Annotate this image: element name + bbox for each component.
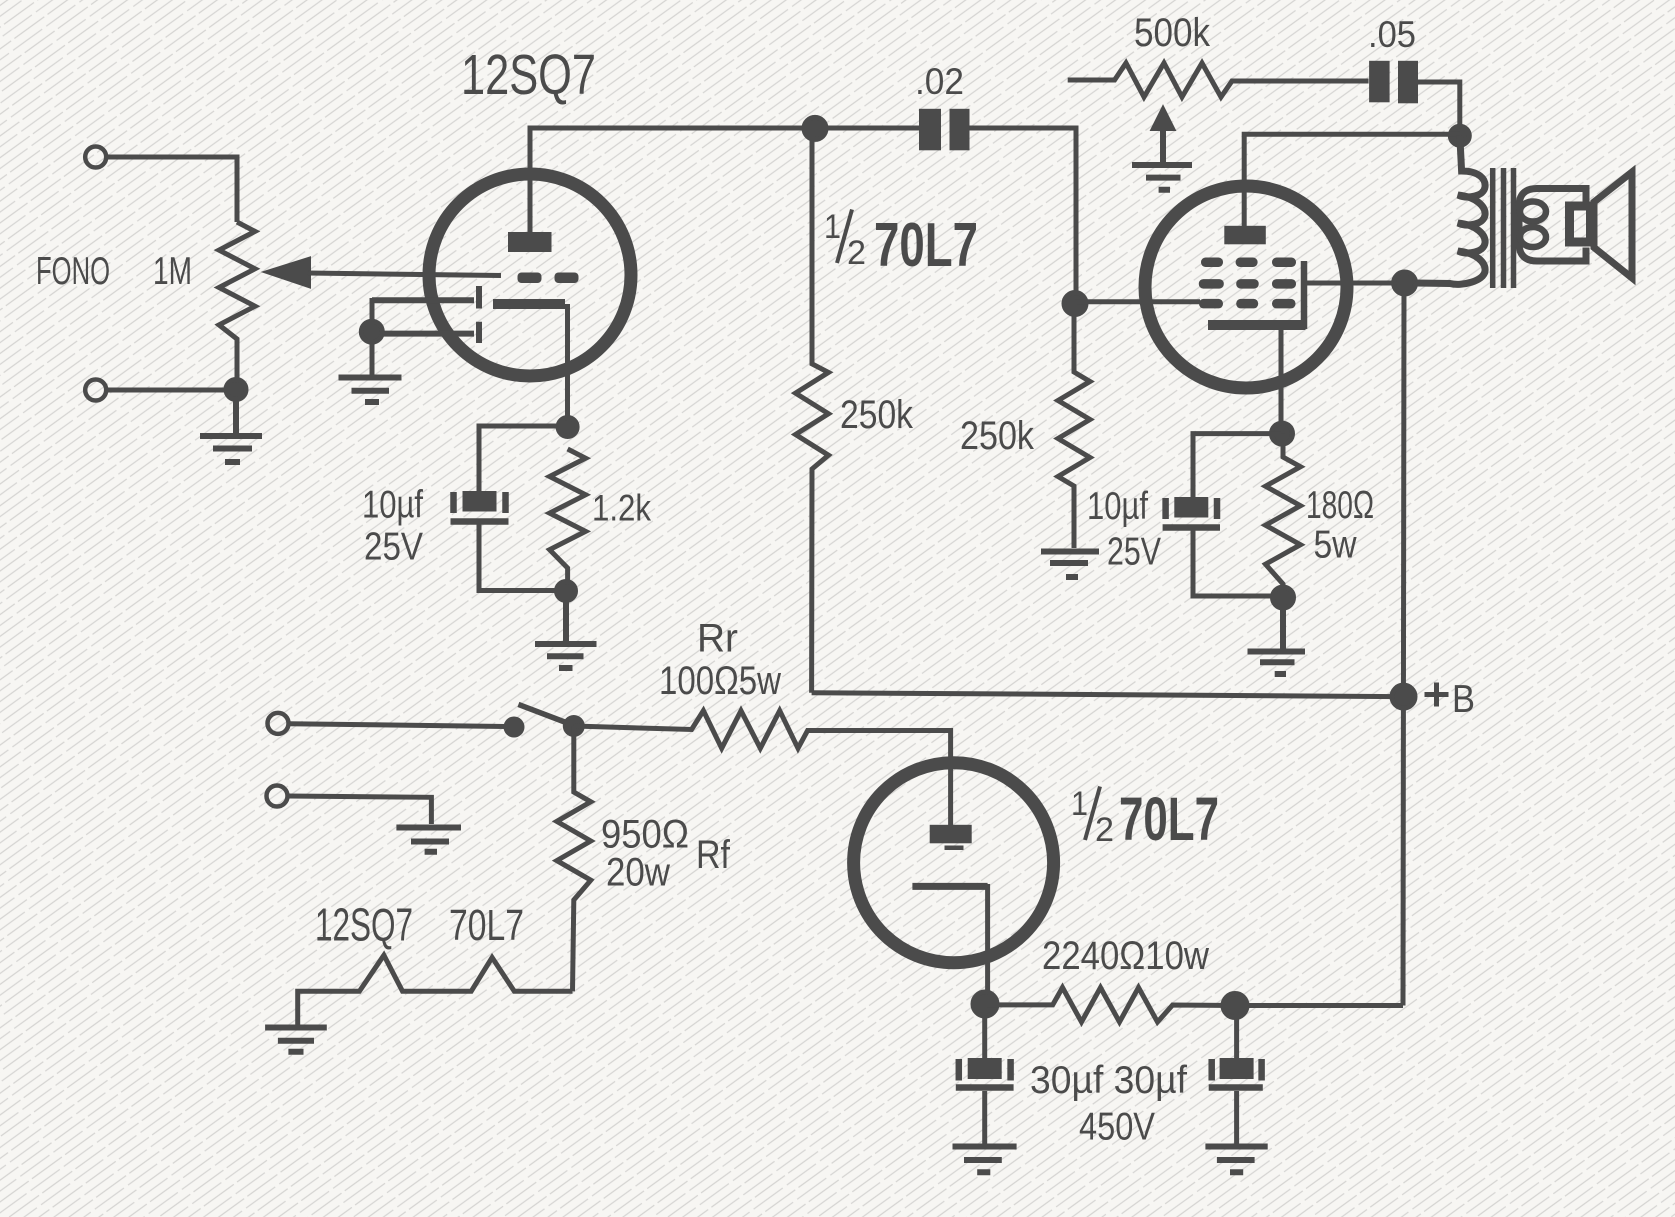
- wire wiper to grid: [308, 273, 501, 276]
- grid row3 dash1 V2: [1199, 299, 1223, 309]
- capacitor C6 30uf right: [1209, 1006, 1263, 1088]
- secondary curl 1: [1520, 202, 1546, 222]
- cathode bar V1: [493, 299, 565, 309]
- svg-text:B: B: [1452, 678, 1475, 721]
- wire cathode node to C4: [479, 426, 567, 491]
- tube V2 70L7 envelope: [1145, 186, 1347, 388]
- speaker LS horn: [1594, 172, 1632, 278]
- svg-text:500k: 500k: [1134, 11, 1210, 55]
- +B rail: [812, 693, 1404, 697]
- wire C4 to R2 bottom node: [479, 525, 563, 591]
- ground pot: [200, 399, 262, 462]
- grid row2 dash3 V2: [1272, 279, 1296, 289]
- svg-text:12SQ7: 12SQ7: [461, 43, 596, 107]
- node E screen/primary junction: [1394, 272, 1416, 294]
- node V1 cathode: [558, 418, 577, 437]
- node R2 bottom: [557, 582, 576, 601]
- ground R5: [1248, 598, 1306, 675]
- wiper ground arrow R3: [1132, 108, 1192, 190]
- terminal J3 AC line top: [268, 713, 289, 734]
- svg-text:30µf 30µf: 30µf 30µf: [1030, 1059, 1187, 1102]
- ground C5: [953, 1147, 1017, 1173]
- wire V2 screen to node E: [1304, 281, 1404, 286]
- resistor R9 2240 ohm: [985, 988, 1235, 1023]
- label 1/2 70L7 bottom: [1071, 785, 1219, 853]
- beam plate riser V2: [1301, 261, 1308, 329]
- svg-text:.02: .02: [915, 60, 964, 102]
- wire V3 cathode down: [985, 884, 990, 1004]
- plate lead V3: [948, 762, 953, 826]
- plate of V2: [1224, 226, 1266, 245]
- svg-text:1.2k: 1.2k: [592, 488, 651, 529]
- wire V1 plate to top rail: [530, 128, 815, 232]
- speaker LS driver: [1570, 206, 1591, 242]
- secondary curl 2: [1520, 227, 1546, 247]
- svg-text:250k: 250k: [840, 393, 913, 437]
- wire J4 to ground: [288, 796, 431, 824]
- svg-text:2: 2: [847, 234, 866, 272]
- wire node B to V2 grid: [1075, 299, 1200, 304]
- node H filter: [1223, 994, 1247, 1018]
- transformer T1 secondary: [1519, 189, 1586, 262]
- wire J1 to pot top: [107, 157, 238, 222]
- resistor R2 1.2k: [550, 449, 586, 591]
- node D cathode V2: [1272, 423, 1293, 444]
- grid row2 dash2 V2: [1236, 279, 1259, 289]
- label 1/2 70L7 mid: [824, 208, 978, 280]
- node pot bottom: [226, 380, 246, 400]
- svg-text:1: 1: [824, 208, 841, 246]
- ground R2: [535, 591, 597, 668]
- wire V2 cathode down: [1279, 330, 1284, 434]
- potentiometer R1 1M: [219, 222, 255, 388]
- svg-text:FONO: FONO: [36, 250, 110, 293]
- tube V1 12SQ7 envelope: [429, 174, 631, 376]
- switch S1: [504, 704, 585, 737]
- svg-text:2: 2: [1095, 811, 1114, 849]
- capacitor C4 10uf: [451, 491, 509, 522]
- svg-text:25V: 25V: [364, 526, 423, 569]
- wire node C to V2 plate: [1244, 134, 1460, 226]
- node C plate junction: [1450, 126, 1469, 145]
- ground diode plates: [339, 378, 402, 403]
- plate grid dash V3: [945, 846, 964, 851]
- svg-text:20w: 20w: [606, 851, 670, 895]
- svg-text:250k: 250k: [960, 414, 1034, 458]
- svg-text:1: 1: [1071, 785, 1088, 823]
- resistor R5 180 ohm: [1266, 434, 1301, 598]
- wire diode plates junction: [370, 298, 375, 376]
- cathode V3: [912, 883, 987, 890]
- wire C5 to ground: [982, 1091, 987, 1146]
- grid row3 dash2 V2: [1236, 299, 1258, 309]
- wire J3 to switch: [289, 724, 505, 727]
- cathode bar V2: [1208, 320, 1306, 330]
- capacitor C3 10uf: [1163, 497, 1220, 528]
- svg-text:70L7: 70L7: [449, 901, 524, 950]
- diode plate upper V1: [372, 286, 479, 309]
- wire C2 to node C: [1418, 82, 1460, 136]
- node I rectifier cathode: [973, 992, 997, 1016]
- plate of V1: [508, 232, 552, 252]
- wire node H to +B line: [1235, 1003, 1403, 1008]
- svg-text:10µf: 10µf: [1087, 485, 1148, 528]
- capacitor C1 .02: [815, 109, 970, 151]
- node F +B: [1392, 685, 1415, 708]
- svg-text:1M: 1M: [153, 250, 192, 293]
- svg-text:180Ω: 180Ω: [1306, 484, 1374, 527]
- transformer T1 core: [1493, 168, 1514, 288]
- grid row1 dash3 V2: [1272, 258, 1296, 268]
- ground R6: [1041, 552, 1099, 578]
- ground C6: [1205, 1147, 1267, 1173]
- wire C3 to node G: [1193, 531, 1279, 597]
- wire node D to C3: [1193, 434, 1281, 497]
- wiper arrow of R1 to V1 grid: [264, 258, 310, 288]
- tube V3 rectifier envelope: [854, 763, 1054, 963]
- wire V1 cathode down: [565, 304, 570, 427]
- svg-text:Rr: Rr: [697, 617, 738, 661]
- capacitor C2 .05: [1369, 61, 1418, 104]
- svg-text:10µf: 10µf: [362, 484, 423, 527]
- terminal J1 FONO top: [85, 147, 106, 168]
- grid row1 dash2 V2: [1236, 258, 1258, 268]
- plate of V3: [930, 825, 972, 844]
- svg-text:450V: 450V: [1079, 1106, 1155, 1149]
- terminal J2 FONO bottom: [85, 380, 106, 401]
- grid dash 1 V1: [518, 273, 542, 284]
- grid row3 dash3 V2: [1272, 299, 1296, 309]
- svg-text:70L7: 70L7: [874, 211, 978, 280]
- svg-text:70L7: 70L7: [1119, 785, 1219, 853]
- potentiometer R3 500k: [1068, 63, 1369, 97]
- node R5 bottom: [1273, 587, 1294, 608]
- node B V2 grid: [1064, 293, 1086, 315]
- wire C1 to V2 grid corner: [970, 128, 1077, 304]
- svg-text:25V: 25V: [1107, 531, 1161, 574]
- label +B: [1425, 683, 1449, 707]
- wire J2 to node: [107, 388, 237, 393]
- svg-text:.05: .05: [1368, 13, 1416, 55]
- svg-text:5w: 5w: [1314, 524, 1357, 567]
- wire C6 to ground: [1234, 1091, 1239, 1146]
- grid row2 dash1 V2: [1199, 279, 1224, 289]
- svg-text:Rf: Rf: [696, 833, 731, 877]
- transformer T1 primary: [1415, 136, 1485, 285]
- svg-text:100Ω5w: 100Ω5w: [659, 659, 781, 703]
- terminal J4 AC line bottom: [267, 786, 288, 807]
- capacitor C5 30uf left: [956, 1004, 1014, 1088]
- svg-text:2240Ω10w: 2240Ω10w: [1042, 934, 1209, 978]
- resistor R8 950 ohm: [557, 726, 591, 991]
- resistor R6 250k grid leak: [1058, 304, 1090, 549]
- grid dash 2 V1: [555, 273, 579, 284]
- heater string 12SQ7 and 70L7: [298, 955, 573, 1025]
- node A top rail: [804, 117, 826, 139]
- ground J4: [396, 828, 461, 852]
- node diode plates: [361, 321, 382, 342]
- grid row1 dash1 V2: [1201, 258, 1223, 268]
- wire +B vertical: [1403, 283, 1404, 1006]
- ground heater: [265, 1028, 327, 1052]
- diode plate lower V1: [372, 322, 479, 343]
- resistor R4 250k plate load: [796, 128, 829, 693]
- resistor R7 Rr 100 ohm: [574, 711, 951, 762]
- svg-text:12SQ7: 12SQ7: [315, 899, 413, 951]
